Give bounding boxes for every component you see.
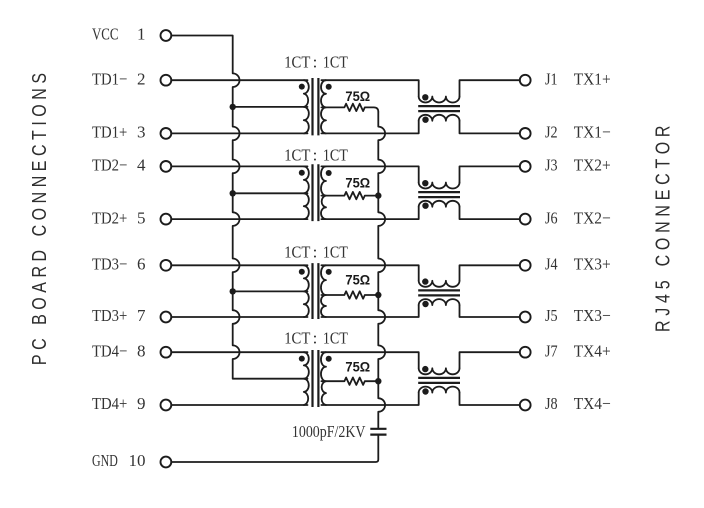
transformer T3 secondary winding [321, 265, 326, 317]
transformer T4 secondary winding [321, 352, 326, 405]
svg-text:TX4+: TX4+ [574, 341, 611, 360]
pin circle 6 [161, 260, 172, 271]
choke L3 bottom phase dot [422, 301, 428, 307]
transformer T2 secondary winding [321, 166, 326, 219]
svg-text:75Ω: 75Ω [345, 176, 370, 191]
svg-text:J3: J3 [545, 156, 558, 175]
wire choke L3 bottom to J pin [460, 305, 520, 317]
transformer T1 secondary phase dot [326, 84, 332, 90]
transformer T2 core [313, 164, 319, 221]
svg-text:1000pF/2KV: 1000pF/2KV [292, 422, 366, 441]
pin circle J2 [520, 128, 531, 139]
choke L2 top phase dot [422, 180, 428, 186]
svg-text:2: 2 [137, 69, 146, 88]
transformer T3 primary winding [304, 265, 309, 317]
choke L4 bottom phase dot [422, 388, 428, 394]
wire TD1+ to T1 primary bottom [171, 132, 307, 134]
wire T2 primary center tap [233, 192, 308, 194]
wire TD2+ to T2 primary bottom [171, 218, 307, 220]
junction bus center tap T2 [230, 190, 236, 196]
transformer T1 core [313, 78, 319, 135]
choke L1 core [418, 106, 460, 111]
pin circle 4 [161, 161, 172, 172]
svg-text:TD1+: TD1+ [92, 123, 127, 142]
wire T2 secondary top to choke L2 [321, 166, 418, 182]
pin circle J1 [520, 75, 531, 86]
pin circle J8 [520, 400, 531, 411]
wire T1 secondary top to choke L1 [321, 80, 418, 96]
wire choke L4 bottom to J pin [460, 393, 520, 405]
wire TD3+ to T3 primary bottom [171, 316, 307, 318]
resistor R1 75ohm [321, 104, 378, 112]
transformer T4 core [313, 350, 319, 407]
svg-text:1CT: 1CT [323, 145, 348, 164]
pin circle 5 [161, 214, 172, 225]
pin circle 8 [161, 347, 172, 358]
wire TD4- to T4 primary top [171, 351, 307, 353]
choke L1 bottom phase dot [422, 117, 428, 123]
choke L4 top winding [419, 368, 460, 374]
svg-text:TD2+: TD2+ [92, 208, 127, 227]
junction bus center tap T3 [230, 288, 236, 294]
svg-text:1CT: 1CT [284, 243, 311, 262]
svg-text:7: 7 [137, 306, 146, 325]
wire T3 primary center tap [233, 290, 308, 292]
transformer T2 primary winding [304, 166, 309, 219]
transformer T4 secondary phase dot [326, 356, 332, 362]
wire common 75ohm line to capacitor [378, 112, 385, 428]
transformer T3 primary phase dot [299, 269, 305, 275]
svg-text:3: 3 [137, 123, 146, 142]
svg-text:6: 6 [137, 255, 146, 274]
choke L1 top winding [419, 97, 460, 103]
wire choke L3 top to J pin [460, 265, 520, 281]
transformer T3 secondary phase dot [326, 269, 332, 275]
wire TD3- to T3 primary top [171, 264, 307, 266]
wire TD2- to T2 primary top [171, 165, 307, 167]
wire VCC bus pin1 to center taps [171, 36, 307, 379]
transformer T1 primary winding [304, 80, 309, 133]
wire capacitor to GND pin 10 [171, 436, 378, 462]
svg-text:TX1−: TX1− [574, 123, 611, 142]
transformer T4 primary phase dot [299, 356, 305, 362]
pin circle J6 [520, 214, 531, 225]
pin circle J3 [520, 161, 531, 172]
svg-text:75Ω: 75Ω [345, 89, 370, 104]
pin circle 10 [161, 457, 172, 468]
pin circle J7 [520, 347, 531, 358]
svg-text:8: 8 [137, 341, 146, 360]
svg-text:1CT: 1CT [323, 52, 348, 71]
choke L4 top phase dot [422, 366, 428, 372]
junction common line R4 [375, 378, 381, 384]
wire choke L1 top to J pin [460, 80, 520, 96]
choke L3 core [418, 290, 460, 295]
svg-text:J5: J5 [545, 306, 558, 325]
resistor R2 75ohm [321, 192, 378, 199]
svg-text:75Ω: 75Ω [345, 360, 370, 375]
choke L1 top phase dot [422, 94, 428, 100]
choke L3 bottom winding [419, 299, 460, 305]
choke L2 bottom winding [419, 201, 460, 207]
pin circle 1 [161, 30, 172, 41]
pin circle 2 [161, 75, 172, 86]
wire choke L1 bottom to J pin [460, 121, 520, 134]
svg-text:J1: J1 [545, 69, 558, 88]
svg-text:J6: J6 [545, 208, 558, 227]
svg-text:1CT: 1CT [323, 243, 348, 262]
svg-text:1CT: 1CT [284, 52, 311, 71]
wire T3 secondary top to choke L3 [321, 265, 418, 281]
choke L2 core [418, 192, 460, 197]
pin circle J4 [520, 260, 531, 271]
junction common line R2 [375, 192, 381, 198]
transformer T4 primary winding [304, 352, 309, 405]
wire TD4+ to T4 primary bottom [171, 404, 307, 406]
svg-text:TD2−: TD2− [92, 156, 127, 175]
transformer T2 primary phase dot [299, 170, 305, 176]
svg-text:TD4−: TD4− [92, 341, 127, 360]
resistor R4 75ohm [321, 378, 378, 385]
choke L4 core [418, 378, 460, 383]
svg-text:TX1+: TX1+ [574, 69, 611, 88]
svg-text:5: 5 [137, 208, 146, 227]
svg-text:J7: J7 [545, 341, 558, 360]
choke L2 bottom phase dot [422, 203, 428, 209]
svg-text:TD4+: TD4+ [92, 394, 127, 413]
pin circle J5 [520, 312, 531, 323]
wire TD1- to T1 primary top [171, 79, 307, 81]
svg-text:PC BOARD CONNECTIONS: PC BOARD CONNECTIONS [28, 68, 50, 365]
transformer T1 primary phase dot [299, 84, 305, 90]
junction bus center tap T1 [230, 104, 236, 110]
wire T3 secondary bottom to choke L3 [321, 305, 418, 317]
svg-text:10: 10 [129, 451, 146, 470]
svg-text:TX4−: TX4− [574, 394, 611, 413]
svg-text:TX2−: TX2− [574, 208, 611, 227]
wire choke L2 top to J pin [460, 166, 520, 182]
wire T4 secondary top to choke L4 [321, 352, 418, 368]
svg-text:VCC: VCC [92, 25, 119, 44]
svg-text::: : [313, 52, 318, 71]
junction common line R3 [375, 292, 381, 298]
svg-text:TX3−: TX3− [574, 306, 611, 325]
wire choke L4 top to J pin [460, 352, 520, 368]
choke L3 top phase dot [422, 278, 428, 284]
svg-text::: : [313, 243, 318, 262]
choke L1 bottom winding [419, 115, 460, 121]
svg-text:9: 9 [137, 394, 146, 413]
svg-text:1CT: 1CT [323, 329, 348, 348]
choke L3 top winding [419, 281, 460, 287]
svg-text:TD3−: TD3− [92, 255, 127, 274]
pin circle 3 [161, 128, 172, 139]
svg-text:1CT: 1CT [284, 329, 311, 348]
svg-text:TD3+: TD3+ [92, 306, 127, 325]
svg-text:J8: J8 [545, 394, 558, 413]
svg-text::: : [313, 329, 318, 348]
svg-text:GND: GND [92, 451, 118, 470]
svg-text:J4: J4 [545, 255, 558, 274]
wire T4 secondary bottom to choke L4 [321, 393, 418, 405]
svg-text:TX2+: TX2+ [574, 156, 611, 175]
svg-text:1CT: 1CT [284, 145, 311, 164]
choke L2 top winding [419, 183, 460, 189]
choke L4 bottom winding [419, 387, 460, 393]
svg-text:4: 4 [137, 156, 146, 175]
svg-text:75Ω: 75Ω [345, 272, 370, 287]
svg-text:J2: J2 [545, 123, 558, 142]
transformer T3 core [313, 263, 319, 319]
transformer T2 secondary phase dot [326, 170, 332, 176]
svg-text:TX3+: TX3+ [574, 255, 611, 274]
capacitor C1 plates [370, 429, 386, 435]
wire T1 primary center tap [233, 106, 308, 108]
svg-text::: : [313, 145, 318, 164]
pin circle 7 [161, 312, 172, 323]
wire T1 secondary bottom to choke L1 [321, 121, 418, 134]
pin circle 9 [161, 400, 172, 411]
wire T2 secondary bottom to choke L2 [321, 207, 418, 219]
transformer T1 secondary winding [321, 80, 326, 133]
svg-text:RJ45 CONNECTOR: RJ45 CONNECTOR [652, 121, 674, 332]
wire choke L2 bottom to J pin [460, 207, 520, 219]
svg-text:1: 1 [137, 25, 146, 44]
svg-text:TD1−: TD1− [92, 69, 127, 88]
resistor R3 75ohm [321, 291, 378, 298]
